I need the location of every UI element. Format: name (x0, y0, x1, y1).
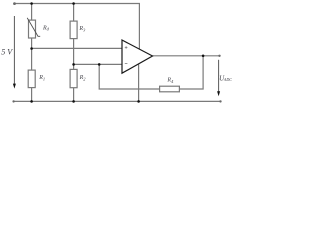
resistor R1 body (28, 70, 35, 88)
wire op-amp output (153, 55, 220, 57)
wire bottom rail (14, 100, 221, 102)
voltage arrow U_ADC (217, 60, 220, 97)
thermistor diagonal mark (27, 18, 40, 37)
svg-text:ADC: ADC (223, 77, 232, 82)
resistor R4 body (160, 86, 180, 92)
wire mid rail node A to op-amp + input (32, 47, 122, 49)
wire thermistor bottom to mid rail (31, 38, 33, 48)
junction dots (30, 2, 204, 103)
thermistor R_theta body (29, 20, 36, 38)
node C (-input / feedback) (98, 63, 101, 66)
terminal top left (13, 2, 16, 5)
wire node B to op-amp - input (74, 63, 122, 65)
terminal output right (218, 55, 220, 57)
junction op-amp supply / bottom rail (137, 100, 140, 103)
node top rail / R_theta (30, 2, 33, 5)
wire feedback node C down and right to R4 (99, 64, 159, 89)
node A (R_theta / R1 / +input) (30, 47, 33, 50)
wire R3 bottom down to node B (crosses mid rail, no junction) (73, 39, 75, 65)
op-amp U1 triangle (122, 40, 153, 73)
wire R4 right to output node (179, 56, 203, 89)
svg-text:R2: R2 (79, 75, 87, 81)
svg-text:5 V: 5 V (1, 48, 13, 57)
node top rail / R3 (72, 2, 75, 5)
wire thermistor branch top stub (31, 4, 33, 21)
terminal bottom right (219, 100, 221, 102)
voltage source arrow 5 V (13, 16, 16, 89)
svg-text:Rϑ: Rϑ (42, 26, 50, 32)
terminal bottom left (12, 100, 14, 102)
op-amp - input mark (125, 63, 128, 65)
wire R2 bottom to bottom rail (73, 88, 75, 102)
wire node B down to R2 (73, 64, 75, 69)
wire node A down to R1 (31, 48, 33, 70)
node output / feedback (202, 55, 205, 58)
resistor R3 body (70, 21, 77, 38)
terminal dots (12, 2, 221, 102)
junction R1 / bottom rail (30, 100, 33, 103)
node B (R3 / R2 / -input) (72, 63, 75, 66)
op-amp + input mark (125, 46, 128, 49)
junction R2 / bottom rail (72, 100, 75, 103)
wire R3 branch top stub (73, 4, 75, 22)
svg-text:R4: R4 (166, 78, 174, 84)
wire R1 bottom to bottom rail (31, 88, 33, 102)
wire op-amp negative supply pin to bottom rail (138, 64, 140, 101)
wire top rail (15, 4, 140, 50)
svg-text:R1: R1 (38, 75, 45, 81)
resistor R2 body (70, 69, 77, 87)
svg-text:R3: R3 (78, 26, 86, 32)
